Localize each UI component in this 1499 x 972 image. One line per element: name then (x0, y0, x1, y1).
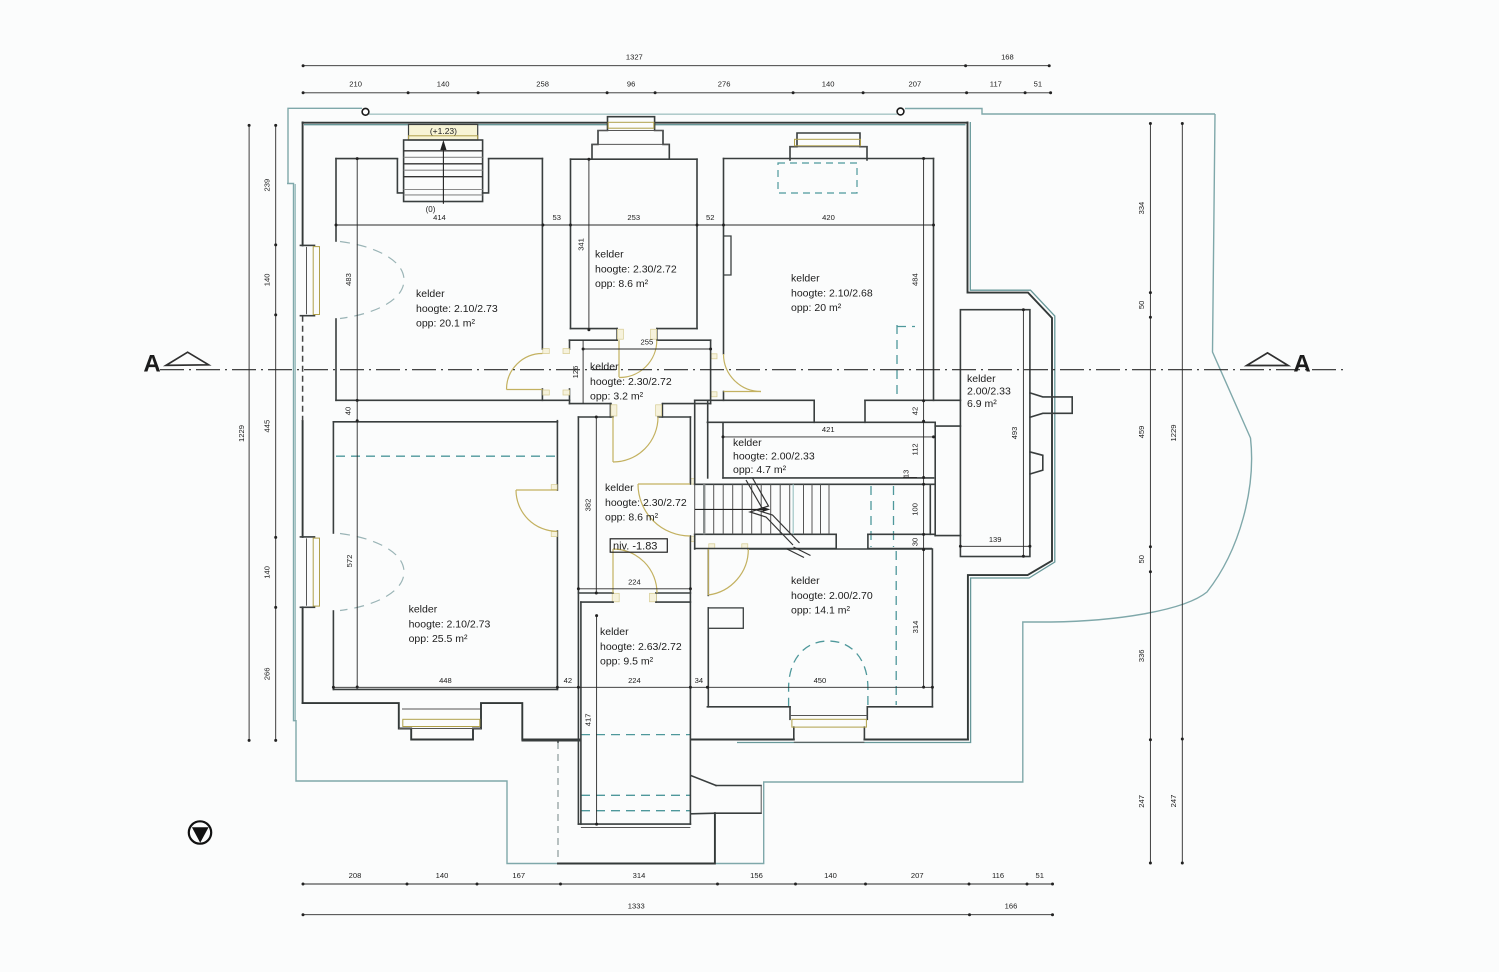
svg-text:kelder: kelder (967, 373, 996, 385)
svg-text:166: 166 (1005, 902, 1018, 911)
svg-text:276: 276 (718, 80, 731, 89)
svg-text:493: 493 (1010, 427, 1019, 440)
svg-text:459: 459 (1137, 426, 1146, 439)
svg-text:100: 100 (911, 503, 920, 516)
svg-text:opp: 3.2 m²: opp: 3.2 m² (590, 391, 644, 403)
svg-text:224: 224 (628, 676, 641, 685)
svg-text:247: 247 (1137, 795, 1146, 808)
svg-text:hoogte: 2.63/2.72: hoogte: 2.63/2.72 (600, 641, 682, 653)
svg-text:opp: 25.5 m²: opp: 25.5 m² (409, 633, 468, 645)
svg-text:kelder: kelder (409, 604, 438, 616)
svg-text:126: 126 (571, 366, 580, 379)
svg-text:2.00/2.33: 2.00/2.33 (967, 386, 1011, 398)
svg-text:139: 139 (989, 535, 1002, 544)
svg-text:kelder: kelder (595, 249, 624, 261)
svg-text:239: 239 (263, 179, 272, 192)
svg-text:opp: 4.7 m²: opp: 4.7 m² (733, 464, 787, 476)
svg-text:1333: 1333 (628, 902, 645, 911)
svg-text:A: A (1293, 351, 1310, 378)
svg-text:484: 484 (911, 273, 920, 286)
svg-text:448: 448 (439, 676, 452, 685)
svg-text:445: 445 (263, 420, 272, 433)
svg-text:112: 112 (911, 443, 920, 455)
svg-text:314: 314 (633, 871, 646, 880)
svg-text:42: 42 (564, 676, 572, 685)
svg-text:247: 247 (1169, 795, 1178, 808)
svg-text:42: 42 (911, 407, 920, 415)
svg-text:hoogte: 2.00/2.33: hoogte: 2.00/2.33 (733, 451, 815, 463)
svg-text:255: 255 (641, 338, 654, 347)
svg-text:opp: 14.1 m²: opp: 14.1 m² (791, 605, 850, 617)
svg-text:opp: 8.6 m²: opp: 8.6 m² (595, 278, 649, 290)
svg-text:hoogte: 2.30/2.72: hoogte: 2.30/2.72 (590, 376, 672, 388)
svg-text:kelder: kelder (416, 288, 445, 300)
svg-text:168: 168 (1001, 53, 1014, 62)
svg-text:266: 266 (263, 668, 272, 681)
svg-text:156: 156 (750, 871, 763, 880)
svg-text:140: 140 (263, 274, 272, 287)
svg-text:382: 382 (583, 499, 592, 512)
svg-text:1327: 1327 (626, 53, 643, 62)
svg-text:1229: 1229 (237, 425, 246, 442)
svg-text:30: 30 (911, 538, 920, 546)
svg-text:224: 224 (628, 578, 641, 587)
svg-text:483: 483 (344, 273, 353, 286)
svg-text:52: 52 (706, 213, 714, 222)
svg-text:40: 40 (343, 407, 352, 415)
svg-text:140: 140 (263, 566, 272, 579)
svg-text:hoogte: 2.00/2.70: hoogte: 2.00/2.70 (791, 590, 873, 602)
svg-text:421: 421 (822, 425, 835, 434)
svg-text:50: 50 (1137, 555, 1146, 563)
svg-text:13: 13 (902, 470, 911, 478)
svg-text:140: 140 (437, 80, 450, 89)
svg-text:140: 140 (824, 871, 837, 880)
svg-text:opp: 20 m²: opp: 20 m² (791, 302, 842, 314)
svg-text:117: 117 (990, 80, 1002, 89)
svg-text:116: 116 (992, 871, 1004, 880)
svg-text:hoogte: 2.30/2.72: hoogte: 2.30/2.72 (595, 263, 677, 275)
svg-text:kelder: kelder (791, 273, 820, 285)
svg-text:341: 341 (576, 238, 585, 251)
svg-text:207: 207 (911, 871, 924, 880)
svg-text:6.9 m²: 6.9 m² (967, 398, 997, 410)
svg-text:334: 334 (1137, 202, 1146, 215)
svg-text:A: A (143, 351, 160, 378)
svg-text:420: 420 (822, 213, 835, 222)
svg-text:140: 140 (822, 80, 835, 89)
svg-text:417: 417 (584, 714, 593, 727)
svg-text:hoogte: 2.10/2.68: hoogte: 2.10/2.68 (791, 287, 873, 299)
svg-text:50: 50 (1137, 301, 1146, 309)
svg-text:34: 34 (695, 676, 703, 685)
svg-text:208: 208 (349, 871, 362, 880)
svg-text:253: 253 (627, 213, 640, 222)
svg-text:kelder: kelder (605, 482, 634, 494)
svg-text:167: 167 (512, 871, 525, 880)
svg-text:450: 450 (814, 676, 827, 685)
svg-text:572: 572 (345, 555, 354, 568)
svg-text:hoogte: 2.10/2.73: hoogte: 2.10/2.73 (416, 303, 498, 315)
svg-text:51: 51 (1036, 871, 1044, 880)
svg-text:336: 336 (1137, 649, 1146, 662)
svg-text:414: 414 (433, 213, 446, 222)
svg-text:96: 96 (627, 80, 635, 89)
svg-text:314: 314 (911, 621, 920, 634)
svg-text:kelder: kelder (733, 437, 762, 449)
svg-text:hoogte: 2.10/2.73: hoogte: 2.10/2.73 (409, 618, 491, 630)
svg-text:opp: 20.1 m²: opp: 20.1 m² (416, 318, 475, 330)
svg-text:niv. -1.83: niv. -1.83 (613, 540, 657, 552)
svg-text:kelder: kelder (791, 575, 820, 587)
svg-text:210: 210 (349, 80, 362, 89)
svg-text:258: 258 (536, 80, 549, 89)
svg-text:(+1.23): (+1.23) (430, 126, 457, 136)
svg-text:51: 51 (1034, 80, 1042, 89)
svg-text:207: 207 (909, 80, 922, 89)
svg-text:hoogte: 2.30/2.72: hoogte: 2.30/2.72 (605, 497, 687, 509)
svg-text:kelder: kelder (600, 626, 629, 638)
svg-text:kelder: kelder (590, 361, 619, 373)
svg-text:1229: 1229 (1169, 425, 1178, 442)
svg-text:opp: 8.6 m²: opp: 8.6 m² (605, 512, 659, 524)
svg-text:53: 53 (552, 213, 560, 222)
svg-text:140: 140 (436, 871, 449, 880)
svg-text:opp: 9.5 m²: opp: 9.5 m² (600, 656, 654, 668)
